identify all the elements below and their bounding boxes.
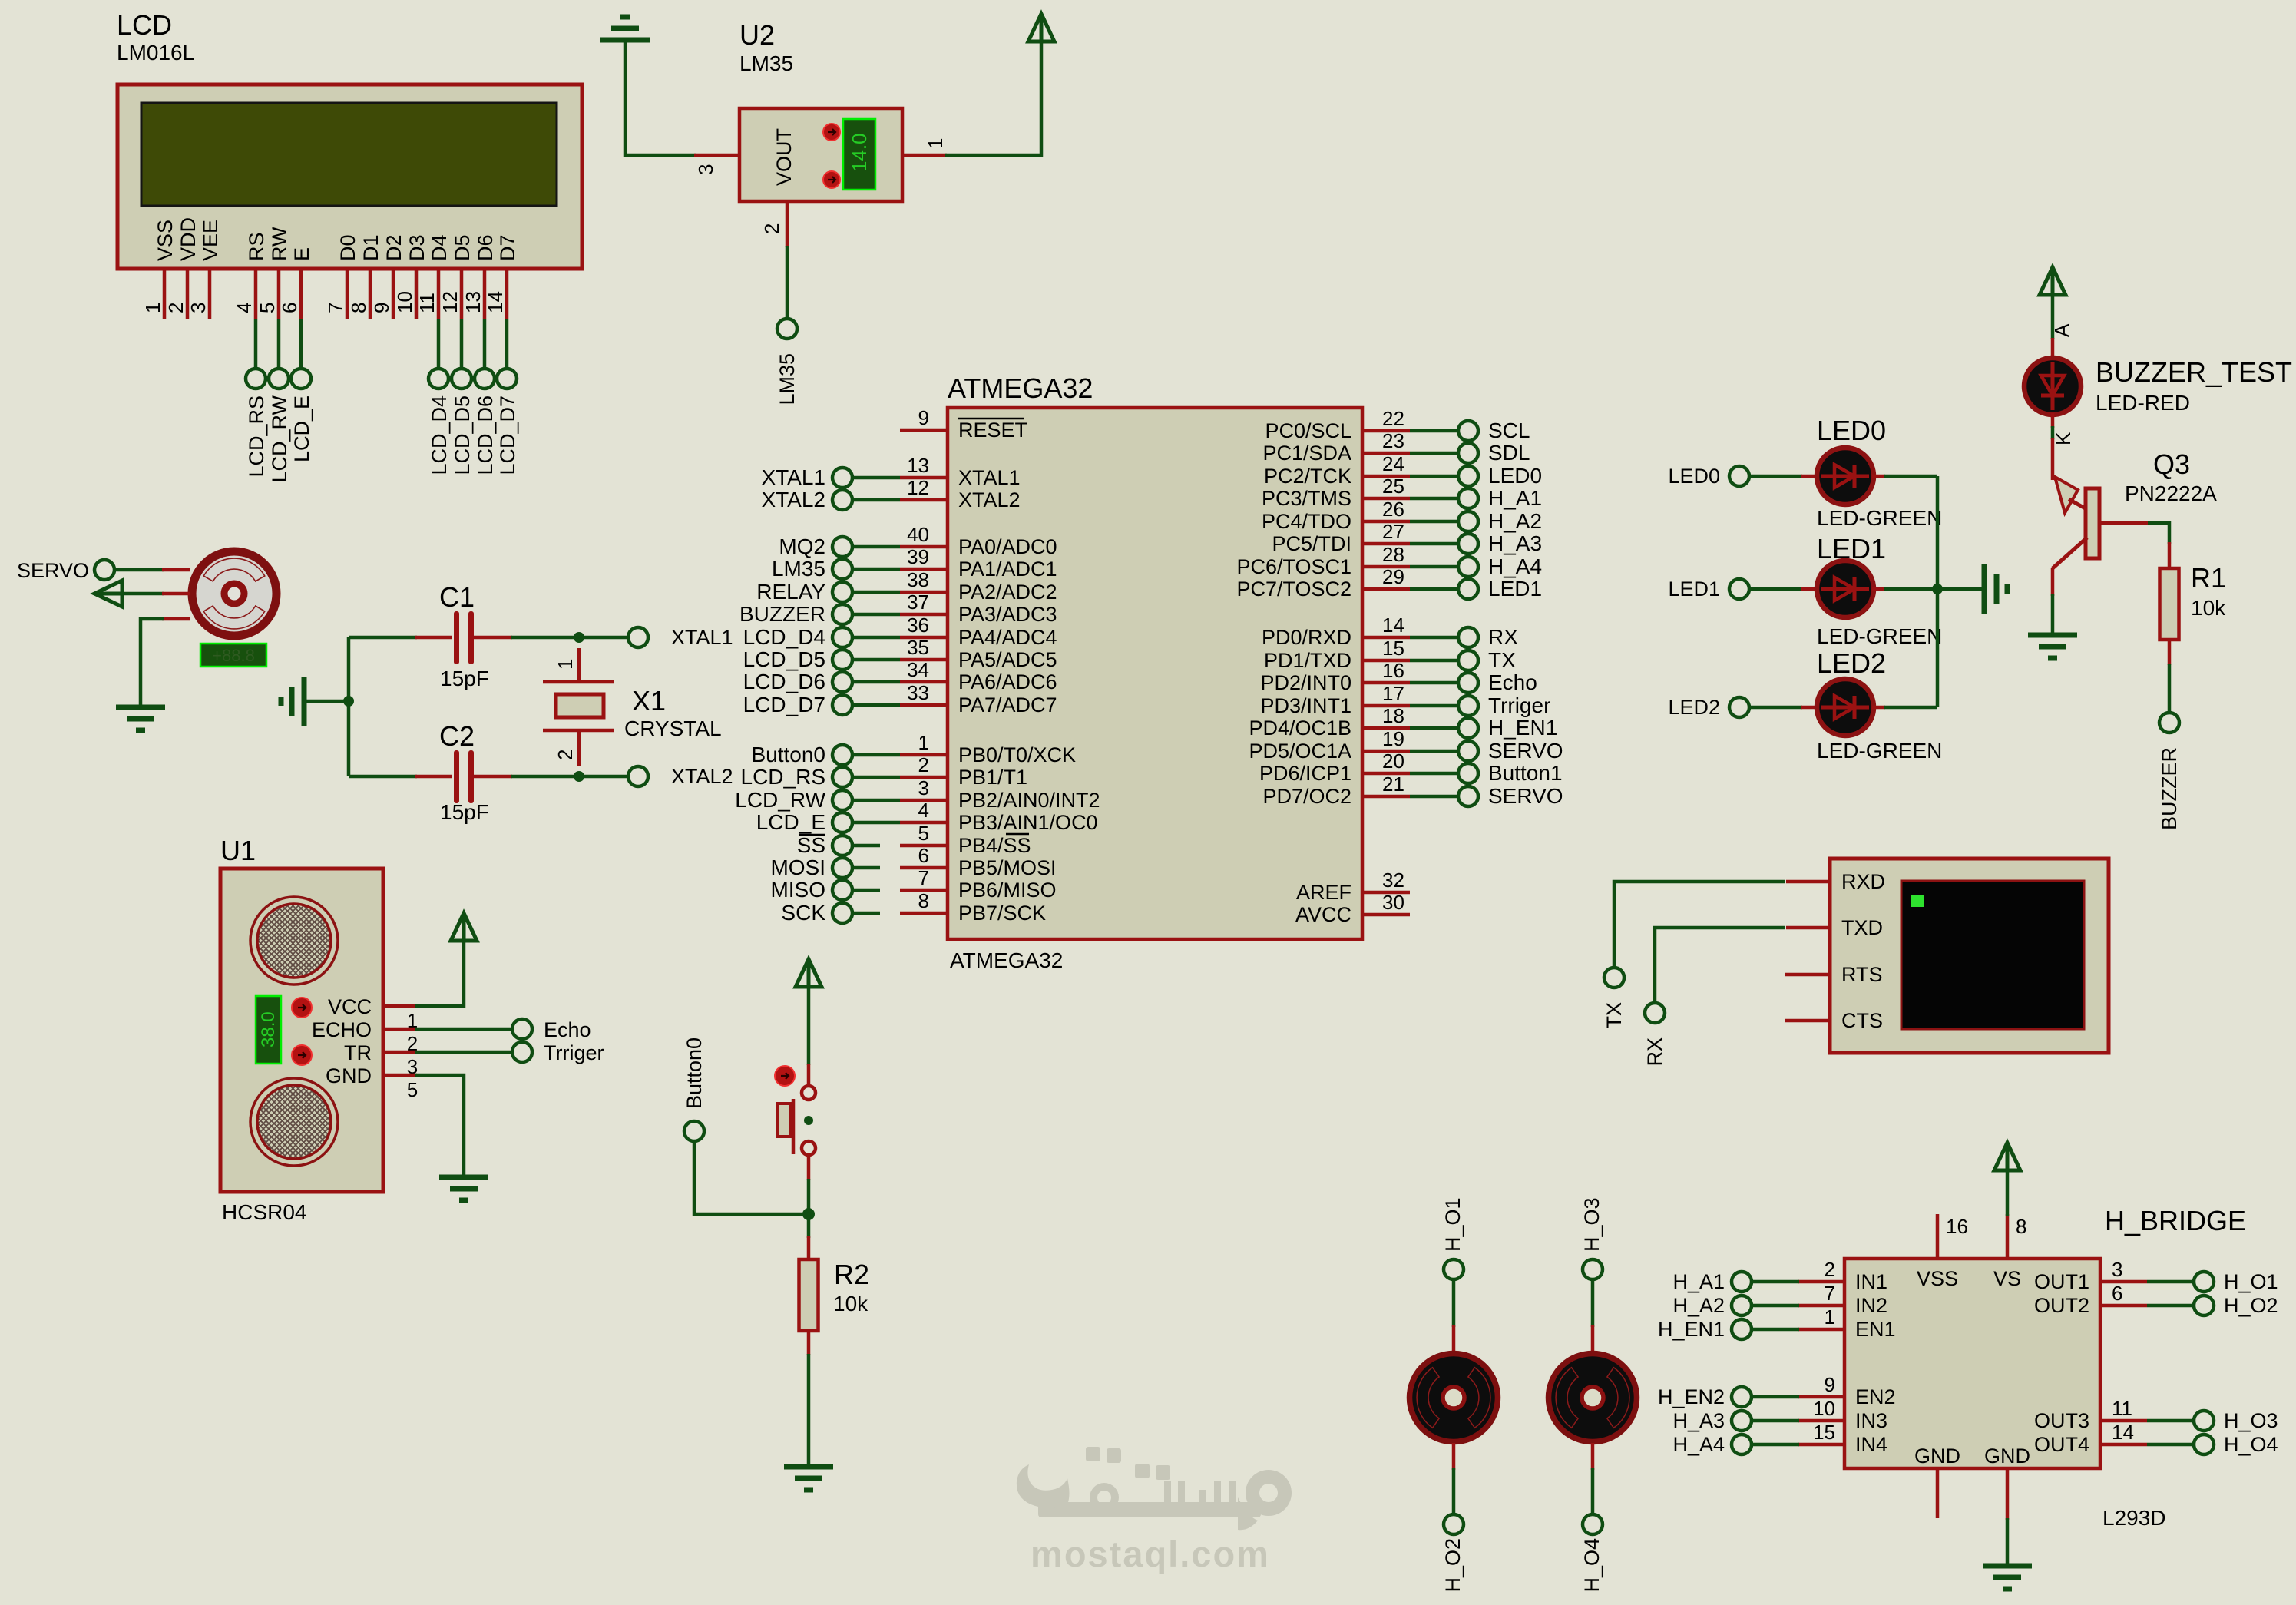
wire node to terminal Button0 [694, 1141, 809, 1214]
wire terminal Button1 [1410, 772, 1458, 776]
push button Button0 [775, 1066, 816, 1155]
wire H_BRIDGE GND to ground [2006, 1518, 2010, 1566]
svg-text:L293D: L293D [2102, 1506, 2166, 1530]
svg-text:PD6/ICP1: PD6/ICP1 [1259, 762, 1351, 785]
wire power to button top [807, 985, 811, 1086]
svg-text:29: 29 [1382, 565, 1404, 588]
svg-text:PA4/ADC4: PA4/ADC4 [958, 626, 1057, 649]
svg-text:Echo: Echo [1488, 670, 1537, 694]
svg-text:10k: 10k [2191, 596, 2226, 620]
svg-text:RTS: RTS [1841, 963, 1883, 986]
terminal XTAL1 (ATMEGA32 left) [761, 465, 852, 489]
svg-text:BUZZER: BUZZER [739, 602, 825, 626]
terminal Echo [512, 1018, 591, 1041]
wire terminal LCD_D6 [852, 680, 900, 684]
wire terminal H_A3 [1410, 542, 1458, 546]
terminal H_A1 (ATMEGA32 right) [1458, 486, 1542, 510]
ground (LED bus) [1984, 564, 2007, 614]
sensor U1 HCSR04 ultrasonic [220, 835, 383, 1224]
svg-text:VOUT: VOUT [773, 128, 796, 186]
terminal SCL (ATMEGA32 right) [1458, 419, 1530, 442]
wire C1-C2 left bus [347, 637, 351, 776]
LCD LM016L display module [117, 9, 582, 269]
wire terminal MQ2 [852, 545, 900, 549]
terminal LCD_RS (ATMEGA32 left) [741, 765, 852, 789]
crystal X1 [543, 648, 722, 766]
wire U1 ECHO pin2 to terminal Echo [383, 1029, 512, 1055]
svg-text:LCD_D6: LCD_D6 [743, 670, 825, 693]
wire ground to bus [306, 700, 349, 703]
svg-text:E: E [290, 247, 313, 261]
svg-text:OUT2: OUT2 [2034, 1294, 2089, 1317]
svg-text:LCD_RW: LCD_RW [268, 395, 291, 482]
wire terminal MISO [852, 889, 880, 892]
terminal H_A3 [1672, 1409, 1752, 1432]
ground (U1) [439, 1177, 488, 1200]
svg-text:3: 3 [918, 776, 929, 799]
wire terminal BUZZER [852, 613, 900, 617]
ground (servo) [116, 707, 165, 730]
wire LCD pin 14 to terminal LCD_D7 [505, 319, 509, 369]
svg-text:15: 15 [1813, 1421, 1835, 1444]
wire terminal RELAY [852, 591, 900, 594]
wire U1 VCC pin1 to power [383, 941, 464, 1032]
svg-text:TX: TX [1603, 1002, 1626, 1029]
wire terminal H_A1 to H_BRIDGE [1752, 1280, 1799, 1284]
svg-text:PB1/T1: PB1/T1 [958, 766, 1027, 789]
svg-text:PA3/ADC3: PA3/ADC3 [958, 603, 1057, 626]
svg-text:5: 5 [256, 303, 279, 313]
terminal LCD_D5 (ATMEGA32 left) [743, 647, 852, 671]
svg-text:20: 20 [1382, 750, 1404, 773]
ground (H_BRIDGE) [1983, 1566, 2032, 1589]
svg-text:22: 22 [1382, 407, 1404, 430]
terminal LCD_D4 [428, 369, 451, 475]
wire C2 left [349, 775, 452, 779]
svg-text:18: 18 [1382, 704, 1404, 727]
LED LED2 LED-GREEN [1817, 647, 1942, 763]
svg-text:U2: U2 [739, 19, 775, 51]
svg-text:H_O3: H_O3 [1580, 1197, 1603, 1252]
wire terminal Trriger [1410, 704, 1458, 708]
svg-text:VDD: VDD [177, 217, 200, 261]
terminal H_O4 (motor bottom) [1580, 1514, 1603, 1593]
svg-text:36: 36 [907, 614, 929, 637]
svg-text:AREF: AREF [1296, 881, 1351, 904]
power +5V arrow (U1 VCC) [451, 913, 477, 941]
wire terminal SS [852, 844, 880, 848]
svg-text:16: 16 [1382, 659, 1404, 682]
svg-text:PC3/TMS: PC3/TMS [1262, 487, 1351, 510]
terminal H_O2 (motor bottom) [1441, 1514, 1464, 1593]
svg-text:1: 1 [1825, 1306, 1835, 1329]
svg-text:+88.8: +88.8 [212, 646, 255, 665]
svg-text:13: 13 [907, 454, 929, 477]
terminal Button1 (ATMEGA32 right) [1458, 761, 1563, 785]
svg-text:SS: SS [797, 833, 825, 857]
svg-text:15: 15 [1382, 637, 1404, 660]
LED BUZZER_TEST LED-RED [2024, 356, 2292, 415]
wire terminal TXD to RX [1655, 928, 1830, 1003]
svg-text:LCD_E: LCD_E [290, 395, 313, 462]
wire motor to H_O4 [1591, 1443, 1595, 1514]
wire terminal SERVO [1410, 795, 1458, 799]
svg-text:Button0: Button0 [751, 743, 825, 766]
sensor U2 LM35 [739, 19, 902, 201]
svg-text:1: 1 [918, 731, 929, 754]
terminal BUZZER (ATMEGA32 left) [739, 602, 852, 626]
svg-text:D3: D3 [405, 234, 428, 261]
svg-text:5: 5 [407, 1078, 418, 1101]
wire terminal H_A4 to H_BRIDGE [1752, 1443, 1799, 1447]
resistor R2 10k [799, 1214, 870, 1467]
svg-text:LED-GREEN: LED-GREEN [1817, 624, 1942, 648]
svg-text:MQ2: MQ2 [779, 534, 825, 558]
svg-text:LCD_D7: LCD_D7 [496, 395, 519, 475]
terminal LCD_D7 (ATMEGA32 left) [743, 693, 852, 716]
svg-text:PC2/TCK: PC2/TCK [1264, 465, 1351, 488]
svg-text:SERVO: SERVO [17, 559, 89, 582]
wire power to LED anode A [2050, 293, 2073, 361]
svg-text:H_EN1: H_EN1 [1488, 716, 1557, 740]
svg-text:VS: VS [1993, 1267, 2021, 1290]
svg-text:16: 16 [1946, 1215, 1968, 1238]
svg-text:2: 2 [164, 303, 187, 313]
svg-text:9: 9 [1825, 1373, 1835, 1396]
wire terminal LCD_RW [852, 799, 900, 802]
svg-text:11: 11 [2112, 1397, 2132, 1420]
svg-text:9: 9 [370, 303, 393, 313]
wire terminal LED0 to LED [1749, 475, 1818, 478]
junction XTAL2 node [574, 771, 584, 782]
svg-text:LCD_D6: LCD_D6 [474, 395, 497, 475]
svg-text:XTAL1: XTAL1 [761, 465, 825, 489]
svg-text:PB5/MOSI: PB5/MOSI [958, 856, 1057, 879]
wire LED LED0 to bus [1872, 475, 1937, 478]
svg-text:2: 2 [918, 753, 929, 776]
terminal XTAL1 [628, 626, 733, 649]
terminal SDL (ATMEGA32 right) [1458, 441, 1530, 465]
svg-text:AVCC: AVCC [1295, 903, 1351, 926]
svg-text:LCD: LCD [117, 9, 172, 41]
wire terminal LCD_RS [852, 776, 900, 779]
svg-text:LCD_D7: LCD_D7 [743, 693, 825, 716]
terminal LED0 (ATMEGA32 right) [1458, 464, 1542, 488]
svg-text:Button1: Button1 [1488, 761, 1563, 785]
svg-text:IN4: IN4 [1855, 1433, 1887, 1456]
svg-text:17: 17 [1382, 682, 1404, 705]
wire terminal H_A3 to H_BRIDGE [1752, 1419, 1799, 1423]
terminal LCD_D7 [496, 369, 519, 475]
terminal LED0 [1668, 465, 1749, 488]
junction button/R2 node [802, 1208, 815, 1220]
wire terminal SCK [852, 912, 880, 915]
terminal H_O2 (H_BRIDGE out) [2194, 1294, 2278, 1317]
power +5V arrow (H_BRIDGE VS) [1994, 1143, 2020, 1170]
svg-text:14: 14 [484, 291, 507, 313]
svg-text:SERVO: SERVO [1488, 784, 1563, 808]
svg-text:H_O1: H_O1 [2224, 1270, 2278, 1293]
wire U1 GND pin5 to ground [383, 1075, 464, 1177]
svg-text:PD3/INT1: PD3/INT1 [1260, 694, 1351, 717]
svg-text:MOSI: MOSI [770, 855, 825, 879]
svg-text:14: 14 [1382, 614, 1404, 637]
svg-text:19: 19 [1382, 727, 1404, 750]
svg-text:27: 27 [1382, 520, 1404, 543]
terminal H_EN1 (ATMEGA32 right) [1458, 716, 1557, 740]
capacitor C1 15pF [439, 581, 489, 690]
svg-text:VEE: VEE [199, 220, 222, 261]
terminal Trriger [512, 1041, 604, 1064]
wire terminal XTAL2 [852, 498, 900, 502]
wire LED cathode K to Q3 [2052, 413, 2075, 480]
svg-text:32: 32 [1382, 869, 1404, 892]
svg-text:25: 25 [1382, 475, 1404, 498]
svg-text:TX: TX [1488, 648, 1516, 672]
svg-text:OUT3: OUT3 [2034, 1409, 2089, 1432]
svg-text:H_A4: H_A4 [1672, 1433, 1725, 1456]
svg-text:PB7/SCK: PB7/SCK [958, 902, 1046, 925]
microcontroller ATMEGA32 [900, 372, 1410, 972]
svg-text:Trriger: Trriger [1488, 693, 1550, 717]
svg-text:6: 6 [2112, 1282, 2122, 1305]
svg-text:ECHO: ECHO [312, 1018, 372, 1041]
svg-text:H_A3: H_A3 [1488, 531, 1542, 555]
wire terminal LCD_E [852, 821, 900, 825]
svg-text:LED-GREEN: LED-GREEN [1817, 506, 1942, 530]
wire terminal TX [1410, 659, 1458, 663]
svg-text:CTS: CTS [1841, 1009, 1883, 1032]
svg-text:LED-GREEN: LED-GREEN [1817, 739, 1942, 763]
terminal LCD_RW (ATMEGA32 left) [735, 788, 852, 812]
svg-text:H_O3: H_O3 [2224, 1409, 2278, 1432]
svg-text:PB4/SS: PB4/SS [958, 834, 1031, 857]
LCD pins 1-14 [141, 269, 507, 319]
svg-text:D2: D2 [382, 234, 405, 261]
svg-text:PC6/TOSC1: PC6/TOSC1 [1236, 555, 1351, 578]
svg-text:LED2: LED2 [1668, 696, 1720, 719]
svg-text:LCD_D4: LCD_D4 [428, 395, 451, 475]
wire bus to ground [1937, 587, 1983, 591]
terminal H_O4 (H_BRIDGE out) [2194, 1433, 2278, 1456]
terminal RELAY (ATMEGA32 left) [756, 580, 852, 604]
svg-text:14: 14 [2112, 1421, 2134, 1444]
terminal H_O1 (motor top) [1441, 1197, 1464, 1279]
wire terminal H_EN1 [1410, 726, 1458, 730]
svg-text:BUZZER: BUZZER [2158, 747, 2181, 830]
wire SERVO terminal to servo pin1 [114, 568, 190, 572]
svg-text:SCL: SCL [1488, 419, 1530, 442]
wire servo arrow to servo pin2 [122, 592, 190, 596]
svg-text:8: 8 [918, 889, 929, 912]
svg-text:H_A2: H_A2 [1488, 509, 1542, 533]
svg-text:PD4/OC1B: PD4/OC1B [1249, 716, 1351, 740]
svg-text:RESET: RESET [958, 419, 1027, 442]
svg-text:H_O1: H_O1 [1441, 1197, 1464, 1252]
svg-text:PB2/AIN0/INT2: PB2/AIN0/INT2 [958, 789, 1100, 812]
svg-text:10: 10 [1813, 1397, 1835, 1420]
motor (H_O1/H_O2) [1410, 1354, 1498, 1442]
svg-text:3: 3 [694, 164, 717, 175]
svg-text:OUT4: OUT4 [2034, 1433, 2089, 1456]
wire terminal LED1 [1410, 587, 1458, 591]
wire LCD pin 6 to terminal LCD_E [299, 319, 303, 369]
svg-text:LED0: LED0 [1668, 465, 1720, 488]
wire terminal Echo [1410, 681, 1458, 685]
svg-text:XTAL2: XTAL2 [761, 488, 825, 511]
ground (U2 pin 3) [600, 17, 650, 40]
terminal RX (ATMEGA32 right) [1458, 625, 1518, 649]
motor (H_O3/H_O4) [1549, 1354, 1637, 1442]
LED LED0 LED-GREEN [1817, 415, 1942, 530]
svg-text:H_A4: H_A4 [1488, 554, 1542, 578]
svg-text:PA0/ADC0: PA0/ADC0 [958, 535, 1057, 558]
wire terminal SCL [1410, 429, 1458, 433]
terminal H_A2 (ATMEGA32 right) [1458, 509, 1542, 533]
power +5V arrow (button) [796, 959, 822, 987]
svg-text:TXD: TXD [1841, 916, 1883, 939]
terminal H_EN1 [1658, 1318, 1752, 1341]
svg-text:PD2/INT0: PD2/INT0 [1260, 671, 1351, 694]
terminal H_A1 [1672, 1270, 1752, 1293]
svg-text:ATMEGA32: ATMEGA32 [950, 948, 1063, 972]
svg-text:C2: C2 [439, 720, 475, 752]
wire terminal H_A2 to H_BRIDGE [1752, 1304, 1799, 1308]
LED LED1 LED-GREEN [1817, 533, 1942, 648]
svg-text:LCD_D5: LCD_D5 [743, 647, 825, 671]
svg-text:SERVO: SERVO [1488, 739, 1563, 763]
svg-text:PB6/MISO: PB6/MISO [958, 879, 1057, 902]
terminal LED1 [1668, 577, 1749, 601]
svg-text:H_O4: H_O4 [2224, 1433, 2278, 1456]
wire terminal SDL [1410, 452, 1458, 455]
svg-text:10k: 10k [833, 1292, 868, 1315]
wire terminal H_EN2 to H_BRIDGE [1752, 1395, 1799, 1399]
svg-text:33: 33 [907, 681, 929, 704]
svg-text:1: 1 [924, 138, 947, 149]
wire terminal LCD_D5 [852, 658, 900, 662]
terminal SCK (ATMEGA32 left) [781, 901, 852, 925]
junction ground node [343, 696, 354, 707]
wire U2 pin 2 to terminal LM35 [760, 201, 787, 319]
terminal BUZZER [2158, 713, 2181, 830]
svg-text:U1: U1 [220, 835, 256, 866]
svg-text:PA5/ADC5: PA5/ADC5 [958, 648, 1057, 671]
terminal H_A2 [1672, 1294, 1752, 1317]
transistor Q3 PN2222A [2053, 448, 2217, 568]
terminal H_O3 (H_BRIDGE out) [2194, 1409, 2278, 1432]
terminal LCD_D4 (ATMEGA32 left) [743, 625, 852, 649]
svg-text:H_A2: H_A2 [1672, 1294, 1725, 1317]
terminal XTAL2 (ATMEGA32 left) [761, 488, 852, 511]
wire terminal LED1 to LED [1749, 587, 1818, 591]
svg-text:H_O2: H_O2 [2224, 1294, 2278, 1317]
wire Q3 base to R1 [2099, 523, 2169, 568]
terminal LCD_D6 (ATMEGA32 left) [743, 670, 852, 693]
svg-text:LED0: LED0 [1817, 415, 1886, 446]
svg-text:39: 39 [907, 545, 929, 568]
terminal XTAL2 [628, 765, 733, 788]
wire terminal Button0 [852, 753, 900, 757]
wire LCD pin 13 to terminal LCD_D6 [483, 319, 487, 369]
svg-text:LM35: LM35 [776, 353, 799, 405]
svg-text:XTAL2: XTAL2 [671, 765, 733, 788]
svg-text:8: 8 [2016, 1215, 2026, 1238]
wire LCD pin 12 to terminal LCD_D5 [460, 319, 464, 369]
svg-text:RS: RS [245, 232, 268, 261]
svg-text:VCC: VCC [328, 995, 372, 1018]
svg-text:Echo: Echo [544, 1018, 591, 1041]
svg-text:6: 6 [278, 303, 301, 313]
wire motor to H_O2 [1452, 1443, 1456, 1514]
wire C2 right to XTAL2 node [469, 775, 628, 779]
terminal MISO (ATMEGA32 left) [770, 878, 852, 902]
wire H_BRIDGE to terminal H_O1 [2147, 1280, 2194, 1284]
svg-text:PA1/ADC1: PA1/ADC1 [958, 558, 1057, 581]
wire ground to U2 pin 3 [625, 42, 739, 175]
svg-text:2: 2 [554, 750, 577, 760]
terminal LCD_E [290, 369, 313, 462]
svg-text:MISO: MISO [770, 878, 825, 902]
svg-text:38: 38 [907, 568, 929, 591]
terminal LCD_E (ATMEGA32 left) [756, 810, 852, 834]
svg-text:CRYSTAL: CRYSTAL [624, 716, 722, 740]
svg-text:4: 4 [918, 799, 929, 822]
svg-text:IN3: IN3 [1855, 1409, 1887, 1432]
wire terminal LCD_D7 [852, 703, 900, 707]
svg-text:21: 21 [1382, 773, 1404, 796]
svg-text:LCD_RS: LCD_RS [741, 765, 825, 789]
svg-text:PD7/OC2: PD7/OC2 [1262, 785, 1351, 808]
terminal MQ2 (ATMEGA32 left) [779, 534, 852, 558]
svg-text:ATMEGA32: ATMEGA32 [948, 372, 1093, 404]
wire terminal H_A4 [1410, 565, 1458, 569]
terminal H_EN2 [1658, 1385, 1752, 1408]
terminal Button0 [683, 1037, 706, 1141]
svg-text:28: 28 [1382, 543, 1404, 566]
terminal H_A4 [1672, 1433, 1752, 1456]
svg-text:1: 1 [554, 659, 577, 670]
input arrow SERVO signal [94, 581, 122, 607]
svg-text:7: 7 [918, 866, 929, 889]
wire terminal MOSI [852, 866, 880, 870]
svg-text:TR: TR [344, 1041, 372, 1064]
svg-text:H_BRIDGE: H_BRIDGE [2105, 1205, 2246, 1236]
svg-text:GND: GND [1914, 1444, 1960, 1468]
wire terminal H_EN1 to H_BRIDGE [1752, 1328, 1799, 1332]
svg-text:SCK: SCK [781, 901, 825, 925]
wire LCD pin 4 to terminal LCD_RS [254, 319, 258, 369]
wire terminal LCD_D4 [852, 636, 900, 640]
svg-text:15pF: 15pF [440, 800, 489, 824]
svg-text:LM016L: LM016L [117, 41, 194, 65]
svg-text:GND: GND [326, 1064, 372, 1087]
wire terminal H_A2 [1410, 520, 1458, 524]
wire U1 TR pin3 to terminal Trriger [383, 1052, 512, 1078]
svg-text:PD1/TXD: PD1/TXD [1264, 649, 1351, 672]
svg-text:RELAY: RELAY [756, 580, 825, 604]
svg-text:4: 4 [233, 303, 256, 313]
wire servo pin3 to ground [141, 619, 190, 707]
svg-text:PC7/TOSC2: PC7/TOSC2 [1236, 577, 1351, 601]
svg-text:PC4/TDO: PC4/TDO [1262, 510, 1351, 533]
junction LED bus [1932, 584, 1943, 594]
svg-text:XTAL1: XTAL1 [671, 626, 733, 649]
svg-text:14.0: 14.0 [848, 133, 871, 172]
wire terminal RX [1410, 636, 1458, 640]
svg-text:R2: R2 [834, 1259, 869, 1290]
terminal LED1 (ATMEGA32 right) [1458, 577, 1542, 601]
